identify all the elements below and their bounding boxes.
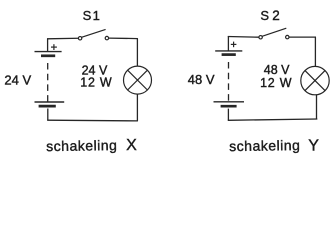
svg-text:Y: Y [308, 138, 319, 155]
svg-text:schakeling: schakeling [229, 137, 300, 154]
svg-text:1: 1 [93, 8, 100, 23]
svg-text:S: S [260, 8, 269, 23]
svg-text:X: X [126, 137, 137, 154]
svg-text:12 W: 12 W [260, 76, 292, 90]
svg-text:24 V: 24 V [4, 73, 31, 88]
svg-text:2: 2 [272, 8, 280, 23]
svg-text:schakeling: schakeling [46, 137, 117, 154]
svg-text:S: S [83, 8, 92, 23]
svg-text:48 V: 48 V [188, 72, 215, 87]
svg-text:12 W: 12 W [80, 76, 112, 90]
